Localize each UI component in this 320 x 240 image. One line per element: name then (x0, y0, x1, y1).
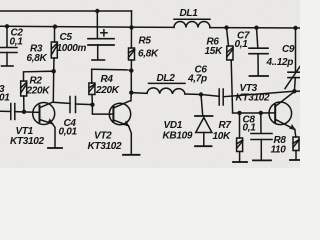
svg-text:6,8K: 6,8K (27, 53, 48, 64)
wire input to VT1 base (0, 110, 11, 112)
node dot (295.5,27.9) (293, 26, 297, 30)
svg-text:KT3102: KT3102 (88, 141, 123, 152)
wire collector VT2 (130, 93, 132, 101)
svg-text:01: 01 (0, 93, 10, 104)
capacitor C5 (electrolytic) (88, 11, 114, 60)
wire main rail left (0, 26, 174, 27)
wire VT1 collector (53, 71, 70, 103)
transistor VT3 (269, 92, 296, 137)
svg-text:R5: R5 (139, 36, 152, 47)
node dot (260.8,112.1) (259, 111, 263, 115)
varicap VD1 (195, 95, 213, 146)
wire R5 to DL2 node (130, 71, 132, 93)
ground (C8) (253, 159, 271, 161)
transistor VT1 (33, 102, 55, 148)
node dot (131.5,27.4) (129, 25, 133, 29)
svg-text:R4: R4 (101, 74, 114, 85)
node dot (131.3,92.6) (129, 90, 133, 94)
svg-text:0,1: 0,1 (10, 37, 24, 48)
wire C6 to VT3 collector node (223, 91, 294, 97)
inductor DL2 (131, 88, 201, 95)
svg-text:R7: R7 (219, 120, 232, 131)
svg-text:4,7p: 4,7p (187, 74, 207, 85)
transistor VT2 (109, 101, 131, 155)
svg-text:DL1: DL1 (180, 8, 199, 19)
resistor R6 (227, 28, 234, 113)
resistor R8 (293, 137, 299, 160)
ground (VT1 emitter) (48, 147, 62, 149)
svg-text:KT3102: KT3102 (236, 92, 271, 103)
svg-text:220K: 220K (26, 86, 51, 97)
node dot (239.5,112.5) (237, 111, 241, 115)
resistor R3 (51, 27, 57, 71)
capacitor C2 (0, 26, 17, 65)
ground (R7) (233, 161, 247, 163)
core line DL1 (174, 18, 210, 20)
node dot (53.7,71.2) (52, 69, 56, 73)
node dot (7,26.3) (5, 24, 9, 28)
ground (C2) (2, 65, 14, 67)
wire top supply line (0, 10, 132, 12)
ground (VD1) (195, 145, 212, 147)
resistor R4 (89, 69, 131, 104)
svg-text:6,8K: 6,8K (138, 49, 159, 60)
capacitor C8 (251, 113, 272, 160)
capacitor C3 (cropped at edge) (11, 104, 39, 120)
resistor R5 (129, 27, 135, 70)
wire stub to right edge (294, 90, 300, 92)
ground (C7) (250, 75, 269, 77)
svg-text:0,01: 0,01 (59, 127, 78, 138)
svg-text:KB109: KB109 (163, 131, 193, 142)
svg-text:10K: 10K (213, 131, 232, 142)
capacitor C4 (70, 97, 92, 113)
node dot (97,11) (95, 9, 99, 13)
wire C4 to VT2 base (92, 105, 112, 114)
node dot (131.3,70.6) (129, 68, 133, 72)
svg-text:110: 110 (271, 145, 287, 156)
svg-text:15K: 15K (205, 46, 224, 57)
wire main rail right (210, 27, 300, 29)
capacitor C7 (249, 28, 268, 76)
node dot (201,94.5) (199, 92, 203, 96)
ground (R8) (290, 159, 300, 161)
svg-text:DL2: DL2 (157, 73, 176, 84)
svg-text:VD1: VD1 (164, 120, 183, 131)
svg-text:220K: 220K (95, 85, 120, 96)
capacitor C6 (201, 89, 223, 105)
ground (C5) (92, 59, 105, 61)
node dot (24,110.9) (22, 110, 26, 114)
core line DL2 (149, 82, 186, 84)
ground (VT2 emitter) (123, 154, 140, 156)
node dot (55,26.6) (53, 24, 57, 28)
svg-text:0,1: 0,1 (243, 123, 257, 134)
node dot (294.4,91.2) (292, 89, 296, 93)
trimmer capacitor C9 (285, 28, 300, 91)
wire VT3 base line (233, 112, 275, 114)
svg-text:C5: C5 (60, 32, 73, 43)
svg-text:0,1: 0,1 (235, 39, 249, 50)
svg-text:1000m: 1000m (57, 43, 87, 54)
inductor DL1 (174, 21, 210, 27)
wire vertical drop to rail (131, 11, 133, 27)
node dot (226.5,27.6) (224, 25, 228, 29)
svg-text:KT3102: KT3102 (10, 136, 45, 147)
node dot (92.4,104.7) (90, 103, 94, 107)
resistor R2 (21, 71, 54, 111)
svg-text:C9: C9 (282, 44, 295, 55)
svg-text:4..12p: 4..12p (266, 57, 294, 68)
resistor R7 (237, 113, 243, 162)
node dot (256,27.7) (254, 26, 258, 30)
